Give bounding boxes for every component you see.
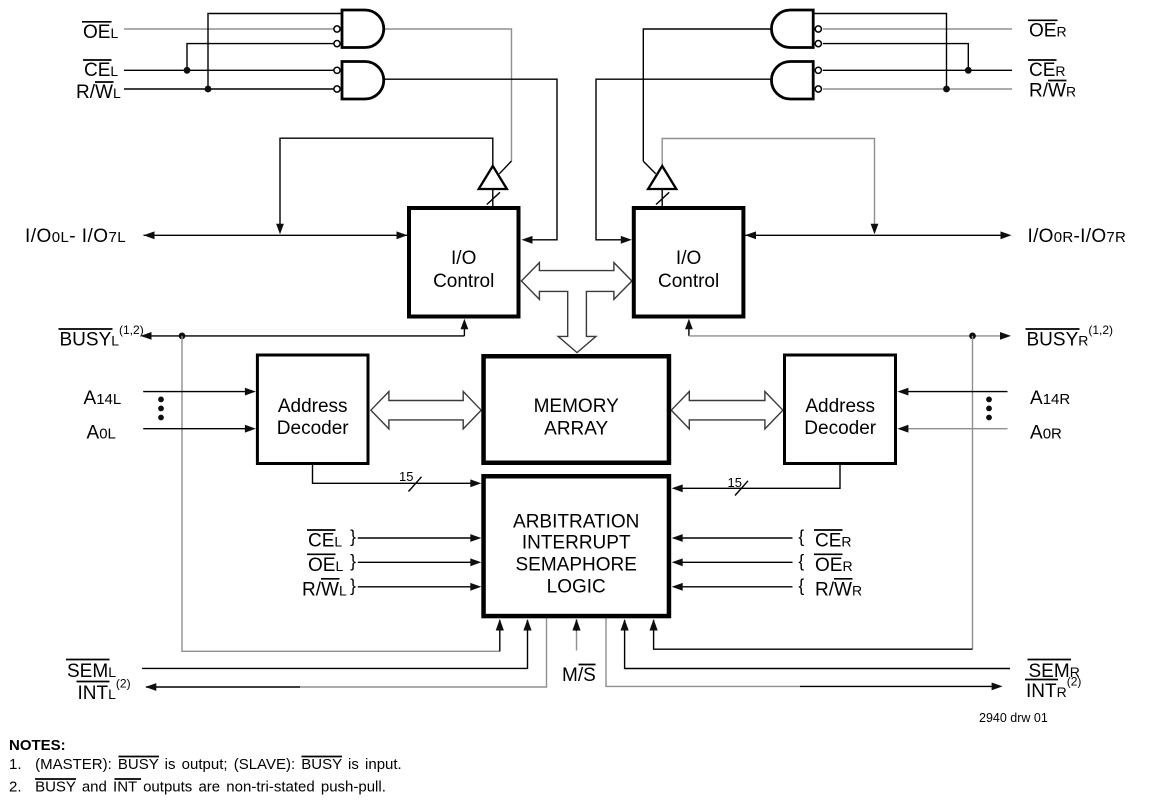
svg-text:CER: CER [1029, 60, 1066, 81]
svg-text:Address: Address [805, 396, 875, 417]
svg-text:A14R: A14R [1030, 388, 1070, 409]
svg-text:R/WL: R/WL [302, 579, 347, 600]
wire SEMR [625, 620, 1010, 669]
arrow OER into arbitration [672, 558, 683, 566]
arrow RWL into arbitration [470, 583, 481, 591]
wire T-shaped hollow data arrow between IO controls and memory array [521, 263, 632, 353]
wire RWR to arbitration [677, 586, 793, 588]
wire buffer to IO control top [492, 189, 494, 206]
node A ellipsis left [158, 397, 164, 403]
svg-text:I/O: I/O [676, 248, 701, 269]
arrow A0R into decoder [897, 425, 908, 433]
svg-text:OER: OER [1029, 21, 1067, 42]
and-gate U2 left bottom [342, 62, 384, 100]
svg-text:R/WR: R/WR [1029, 81, 1076, 102]
wire address bus 15 right [677, 465, 840, 488]
wire hollow arrow address decoder right to memory [671, 392, 783, 429]
bubble U3 pin OE [815, 26, 821, 32]
node BUSYR junction [969, 333, 976, 340]
arrow enable into IO control right [621, 236, 632, 244]
svg-text:}: } [350, 551, 356, 571]
bubble U2 pin CE [334, 67, 340, 73]
wire CER branch to gate U3 [823, 44, 969, 71]
wire RWR branch to gate U3 top [813, 14, 946, 90]
arrow CEL into arbitration [470, 534, 481, 542]
wire feedback up into arbitration [499, 620, 501, 651]
arrow bus15 into arbitration left [470, 479, 481, 487]
arrow IO bus into IO control left [397, 231, 408, 239]
svg-text:CER: CER [815, 531, 852, 552]
svg-text:MEMORY: MEMORY [534, 396, 619, 417]
svg-text:Control: Control [433, 271, 494, 292]
wire gate U4 output to IO control right [596, 79, 772, 240]
wire BUSYL feedback to arbitration [182, 336, 500, 651]
bus slash left buffer [487, 192, 500, 204]
wire IO bus left [144, 234, 408, 236]
wire MS input [576, 630, 578, 651]
arrow BUSYR outward [1000, 332, 1011, 340]
wire RWL to arbitration [358, 586, 475, 588]
arrow feedback right into arbitration bottom [650, 619, 658, 631]
arrow A0L into decoder [245, 425, 256, 433]
node RWR junction [943, 86, 950, 93]
block Address Decoder left [257, 355, 368, 464]
arrow A14L into decoder [245, 388, 256, 396]
svg-text:CEL: CEL [308, 531, 342, 552]
block IO Control right [634, 208, 744, 317]
wire OER to arbitration [677, 561, 793, 563]
block Address Decoder right [785, 355, 896, 464]
svg-text:{: { [798, 551, 804, 571]
arrow RWR into arbitration [672, 583, 683, 591]
svg-text:Control: Control [658, 271, 719, 292]
svg-text:15: 15 [399, 469, 413, 484]
bubble U4 pin RW [815, 86, 821, 92]
block Memory Array [484, 356, 669, 463]
svg-text:OER: OER [815, 555, 853, 576]
arrow data down to IO bus right [871, 224, 879, 235]
wire A0R [901, 428, 1008, 430]
svg-text:CEL: CEL [84, 60, 118, 81]
wire BUSYR feedback to arbitration [972, 336, 974, 649]
arrow enable into IO control left [522, 236, 533, 244]
arrow INTL outward [145, 683, 156, 691]
block IO Control left [409, 208, 519, 317]
wire gate U2 output to IO control left [384, 79, 557, 240]
wire INTR [606, 618, 800, 687]
svg-text:2940 drw 01: 2940 drw 01 [979, 711, 1048, 725]
svg-text:{: { [798, 575, 804, 595]
wire BUSYR horizontal [689, 335, 1007, 337]
svg-text:2.: 2. [9, 778, 22, 795]
wire OEL to arbitration [358, 561, 475, 563]
wire RWL branch to gate U1 top [208, 14, 342, 90]
arrow bus15 into arbitration right [672, 484, 683, 492]
wire A14L [143, 391, 249, 393]
svg-text:BUSY and INT outputs are non-t: BUSY and INT outputs are non-tri-stated … [35, 778, 386, 795]
svg-text:I/O0R-I/O7R: I/O0R-I/O7R [1028, 226, 1127, 247]
svg-text:I/O: I/O [451, 248, 476, 269]
arrow IO bus into IO control right [745, 231, 756, 239]
wire CEL branch to gate U1 [187, 44, 334, 71]
node CER junction [965, 67, 972, 74]
node BUSYL junction [179, 333, 186, 340]
block Arbitration Interrupt Semaphore Logic [484, 476, 669, 616]
wire IO bus right [745, 234, 1008, 236]
wire OER input [823, 28, 1012, 30]
svg-text:Address: Address [278, 396, 348, 417]
and-gate U1 left top [342, 10, 384, 48]
wire gate U3 output to buffer enable [643, 29, 771, 161]
svg-text:1.: 1. [9, 756, 22, 773]
arrow SEML into arbitration bottom [523, 619, 531, 631]
bubble U3 pin CE [815, 41, 821, 47]
bubble U1 pin OE [334, 26, 340, 32]
svg-text:M/S: M/S [562, 665, 596, 686]
svg-text:ARBITRATION: ARBITRATION [513, 511, 639, 532]
svg-text:R/WR: R/WR [815, 579, 862, 600]
arrow IO bus right outward [1001, 231, 1012, 239]
and-gate U4 right bottom [771, 62, 813, 100]
svg-text:OEL: OEL [308, 555, 343, 576]
buffer tri-state left [479, 166, 507, 189]
node RWL junction [205, 86, 212, 93]
wire BUSYR vertical [688, 321, 690, 336]
bus slash 15 left [409, 477, 422, 492]
arrow MS into arbitration bottom [572, 619, 580, 631]
wire CER to arbitration [677, 537, 793, 539]
wire buffer output to IO bus [280, 138, 493, 227]
wire RWR input [823, 88, 1012, 90]
svg-text:A14L: A14L [84, 388, 122, 409]
arrow SEMR into arbitration bottom [621, 619, 629, 631]
svg-text:NOTES:: NOTES: [9, 737, 66, 754]
wire hollow arrow address decoder left to memory [371, 392, 481, 429]
svg-text:15: 15 [728, 475, 742, 490]
wire U1 enable diagonal [499, 161, 511, 174]
svg-text:A0R: A0R [1030, 423, 1062, 444]
svg-text:SEML: SEML [67, 661, 116, 682]
arrow BUSYR into IO control bottom [685, 319, 693, 330]
arrow feedback left into arbitration bottom [496, 619, 504, 631]
svg-text:}: } [350, 527, 356, 547]
arrow OEL into arbitration [470, 558, 481, 566]
arrow A14R into decoder [897, 388, 908, 396]
bubble U2 pin RW [334, 86, 340, 92]
wire INTL [300, 618, 547, 687]
arrow data down to IO bus left [276, 224, 284, 235]
arrow BUSYL into IO control bottom [461, 319, 469, 330]
wire RWL input [124, 88, 334, 90]
svg-text:A0L: A0L [87, 423, 116, 444]
arrow IO bus left outward [144, 231, 155, 239]
bus slash right buffer [656, 192, 669, 204]
wire BUSYL vertical [463, 321, 465, 336]
svg-text:}: } [350, 575, 356, 595]
svg-text:(MASTER): BUSY is output; (SLA: (MASTER): BUSY is output; (SLAVE): BUSY … [35, 756, 402, 773]
wire address bus 15 left [313, 465, 476, 483]
bubble U4 pin CE [815, 67, 821, 73]
svg-text:INTERRUPT: INTERRUPT [522, 533, 631, 554]
wire BUSYL horizontal [142, 335, 464, 337]
wire gate U1 output to buffer enable [384, 29, 512, 161]
arrow INTR outward [992, 683, 1003, 691]
svg-text:OEL: OEL [83, 22, 118, 43]
svg-text:{: { [798, 527, 804, 547]
buffer tri-state right [648, 166, 676, 189]
wire CEL to arbitration [358, 537, 475, 539]
svg-text:I/O0L- I/O7L: I/O0L- I/O7L [25, 226, 126, 247]
wire OEL input [124, 28, 334, 30]
svg-text:SEMAPHORE: SEMAPHORE [515, 555, 636, 576]
wire CEL input [124, 69, 334, 71]
svg-text:Decoder: Decoder [804, 418, 876, 439]
svg-text:Decoder: Decoder [277, 418, 349, 439]
arrow CER into arbitration [672, 534, 683, 542]
wire right buffer to IO control top [661, 189, 663, 206]
svg-text:ARRAY: ARRAY [544, 419, 608, 440]
node A ellipsis right [986, 397, 992, 403]
wire right buffer output to IO bus [662, 139, 874, 228]
wire SEML [142, 620, 528, 668]
arrow BUSYL outward [141, 332, 152, 340]
wire U3 enable diagonal [643, 161, 655, 174]
svg-text:R/WL: R/WL [76, 82, 121, 103]
and-gate U3 right top [771, 10, 813, 48]
wire CER input [823, 69, 1012, 71]
bubble U1 pin CE [334, 41, 340, 47]
wire A14R [901, 391, 1008, 393]
node CEL junction [184, 67, 191, 74]
wire A0L [143, 428, 249, 430]
svg-text:LOGIC: LOGIC [547, 577, 606, 598]
bus slash 15 right [735, 481, 748, 496]
